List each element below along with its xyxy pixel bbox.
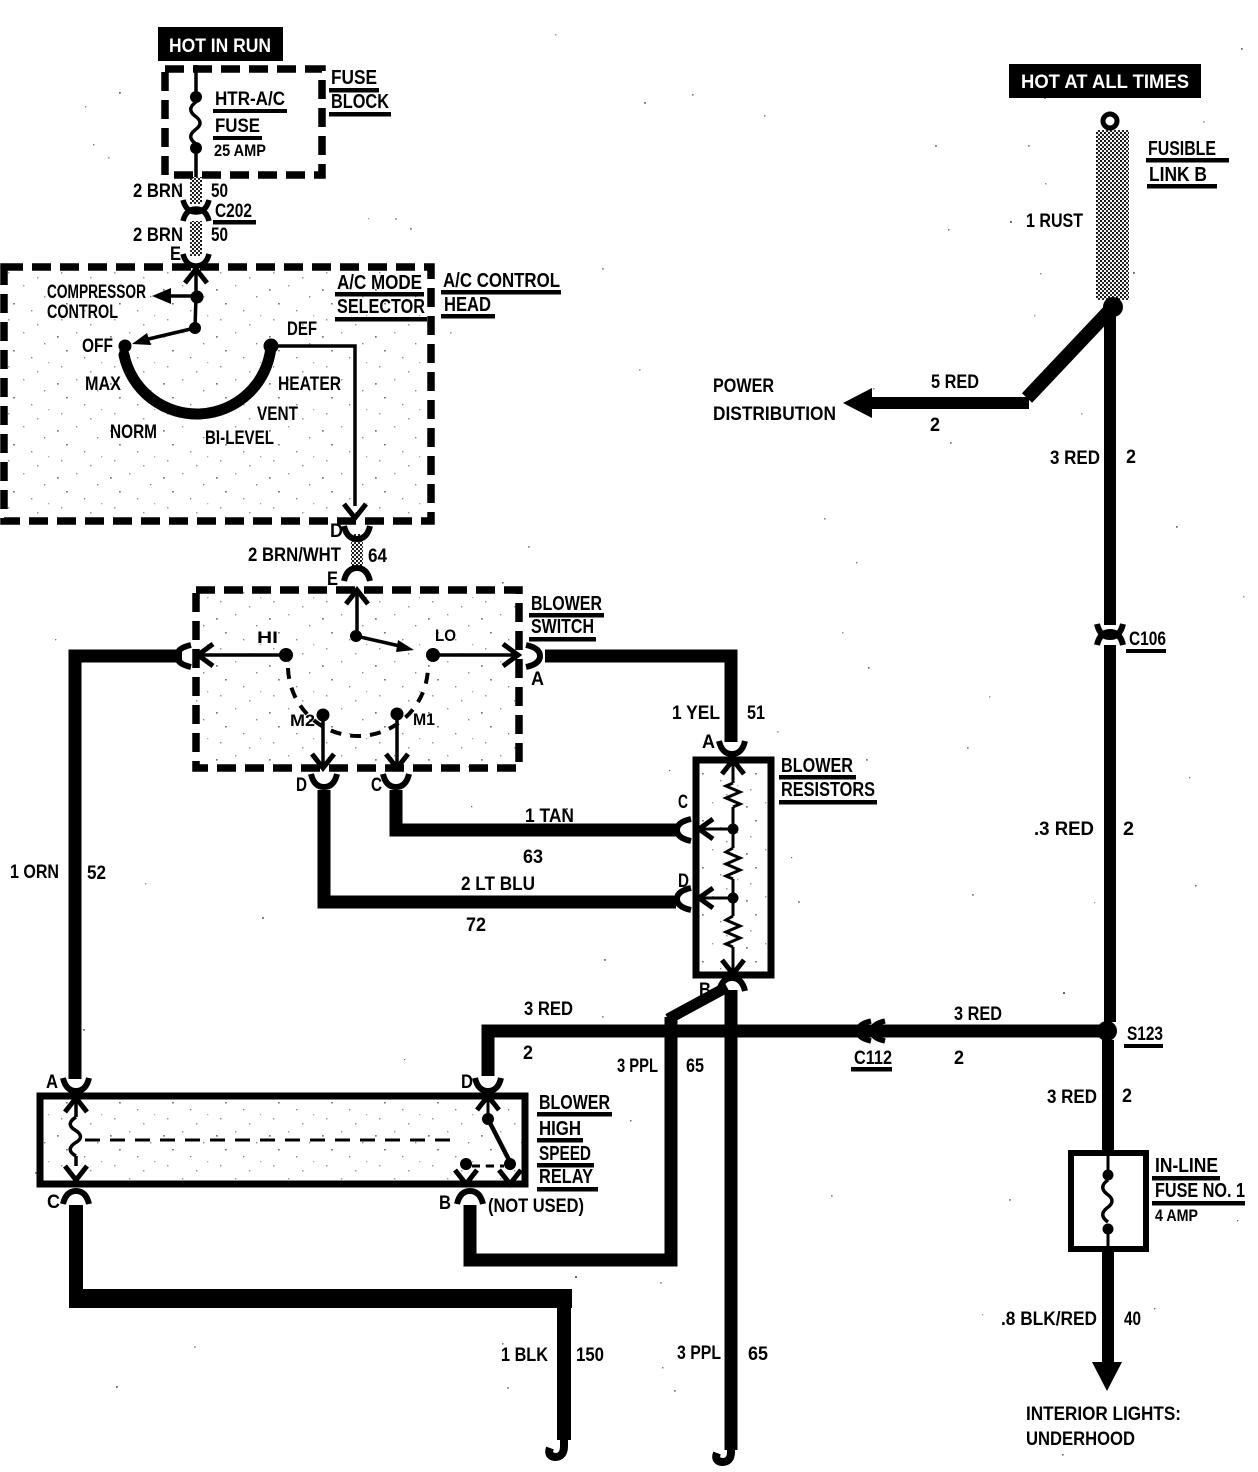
svg-text:B: B xyxy=(439,1193,451,1214)
svg-text:65: 65 xyxy=(748,1344,768,1365)
svg-text:HOT IN RUN: HOT IN RUN xyxy=(169,36,271,57)
svg-text:BLOCK: BLOCK xyxy=(331,91,389,113)
svg-text:HEATER: HEATER xyxy=(278,374,341,395)
svg-text:D: D xyxy=(330,521,343,542)
svg-text:E: E xyxy=(170,244,181,265)
svg-text:2 BRN: 2 BRN xyxy=(133,225,183,246)
svg-text:3 RED: 3 RED xyxy=(1050,448,1100,469)
svg-text:D: D xyxy=(296,775,307,796)
svg-text:BI-LEVEL: BI-LEVEL xyxy=(205,428,274,449)
svg-text:A: A xyxy=(46,1072,58,1093)
svg-text:5 RED: 5 RED xyxy=(931,372,979,393)
svg-text:1 ORN: 1 ORN xyxy=(10,862,59,883)
svg-text:3 RED: 3 RED xyxy=(1047,1087,1097,1108)
svg-text:S123: S123 xyxy=(1127,1024,1163,1045)
svg-text:HOT AT ALL TIMES: HOT AT ALL TIMES xyxy=(1021,72,1189,93)
svg-text:SWITCH: SWITCH xyxy=(531,616,594,638)
svg-text:2 BRN: 2 BRN xyxy=(133,181,183,202)
svg-text:OFF: OFF xyxy=(82,336,113,357)
svg-text:B: B xyxy=(699,980,711,1001)
svg-text:FUSE NO. 1: FUSE NO. 1 xyxy=(1155,1180,1245,1202)
svg-text:1 TAN: 1 TAN xyxy=(525,806,574,827)
svg-text:2: 2 xyxy=(1126,447,1136,468)
svg-text:CONTROL: CONTROL xyxy=(47,302,118,323)
svg-text:HEAD: HEAD xyxy=(444,294,491,316)
svg-text:2: 2 xyxy=(930,415,940,436)
svg-text:M1: M1 xyxy=(413,710,435,729)
svg-text:HI: HI xyxy=(257,628,278,647)
svg-text:HIGH: HIGH xyxy=(539,1118,581,1140)
svg-text:POWER: POWER xyxy=(713,376,774,397)
svg-text:M2: M2 xyxy=(290,711,315,730)
svg-text:4 AMP: 4 AMP xyxy=(1155,1206,1198,1225)
svg-text:2: 2 xyxy=(523,1043,533,1064)
svg-text:A/C MODE: A/C MODE xyxy=(337,272,422,294)
svg-text:HTR-A/C: HTR-A/C xyxy=(215,89,285,110)
svg-text:(NOT USED): (NOT USED) xyxy=(488,1196,584,1217)
svg-text:IN-LINE: IN-LINE xyxy=(1155,1155,1218,1177)
svg-text:2: 2 xyxy=(1123,819,1134,840)
svg-text:65: 65 xyxy=(686,1056,704,1077)
svg-text:COMPRESSOR: COMPRESSOR xyxy=(47,282,146,303)
svg-text:C202: C202 xyxy=(215,201,252,222)
svg-text:FUSE: FUSE xyxy=(215,116,260,137)
svg-text:SPEED: SPEED xyxy=(539,1143,591,1165)
svg-text:SELECTOR: SELECTOR xyxy=(337,296,425,318)
svg-text:C112: C112 xyxy=(854,1048,892,1069)
svg-text:UNDERHOOD: UNDERHOOD xyxy=(1026,1429,1135,1450)
svg-text:52: 52 xyxy=(87,863,106,884)
svg-text:3 RED: 3 RED xyxy=(524,999,573,1020)
svg-text:.8 BLK/RED: .8 BLK/RED xyxy=(1001,1309,1097,1330)
svg-text:FUSIBLE: FUSIBLE xyxy=(1148,138,1216,160)
svg-text:C: C xyxy=(371,775,382,796)
svg-text:INTERIOR LIGHTS:: INTERIOR LIGHTS: xyxy=(1026,1404,1181,1425)
svg-text:C: C xyxy=(678,792,688,813)
svg-text:C106: C106 xyxy=(1129,629,1166,650)
svg-text:50: 50 xyxy=(211,225,228,246)
svg-text:1 BLK: 1 BLK xyxy=(501,1345,548,1366)
svg-text:A: A xyxy=(702,732,715,753)
svg-text:2 LT BLU: 2 LT BLU xyxy=(461,874,535,895)
svg-text:2: 2 xyxy=(1122,1086,1132,1107)
svg-text:A/C CONTROL: A/C CONTROL xyxy=(443,270,560,292)
svg-text:3 PPL: 3 PPL xyxy=(617,1056,658,1077)
svg-text:LINK B: LINK B xyxy=(1149,164,1207,186)
svg-text:72: 72 xyxy=(466,915,486,936)
svg-text:DISTRIBUTION: DISTRIBUTION xyxy=(713,404,836,425)
svg-text:A: A xyxy=(531,669,544,690)
svg-text:2 BRN/WHT: 2 BRN/WHT xyxy=(248,545,341,566)
svg-text:RESISTORS: RESISTORS xyxy=(781,779,875,801)
svg-text:3 PPL: 3 PPL xyxy=(677,1343,721,1364)
svg-text:FUSE: FUSE xyxy=(331,67,377,89)
svg-text:2: 2 xyxy=(954,1048,964,1069)
svg-text:1 YEL: 1 YEL xyxy=(672,703,720,724)
svg-text:D: D xyxy=(461,1072,473,1093)
svg-text:RELAY: RELAY xyxy=(539,1166,594,1188)
svg-text:BLOWER: BLOWER xyxy=(781,755,853,777)
svg-text:64: 64 xyxy=(368,546,387,567)
svg-text:.3 RED: .3 RED xyxy=(1034,819,1094,840)
svg-text:C: C xyxy=(47,1192,60,1213)
svg-text:3 RED: 3 RED xyxy=(954,1004,1002,1025)
svg-text:63: 63 xyxy=(523,847,543,868)
svg-text:NORM: NORM xyxy=(110,422,157,443)
svg-text:BLOWER: BLOWER xyxy=(539,1092,610,1114)
svg-text:40: 40 xyxy=(1124,1309,1141,1330)
svg-text:MAX: MAX xyxy=(85,374,121,395)
svg-text:BLOWER: BLOWER xyxy=(531,593,602,615)
svg-text:51: 51 xyxy=(747,703,765,724)
svg-text:DEF: DEF xyxy=(287,319,317,340)
svg-text:50: 50 xyxy=(211,181,228,202)
svg-text:150: 150 xyxy=(576,1345,604,1366)
svg-text:1 RUST: 1 RUST xyxy=(1026,211,1083,232)
svg-text:25 AMP: 25 AMP xyxy=(214,141,266,160)
svg-text:LO: LO xyxy=(435,626,456,645)
svg-text:VENT: VENT xyxy=(257,404,298,425)
